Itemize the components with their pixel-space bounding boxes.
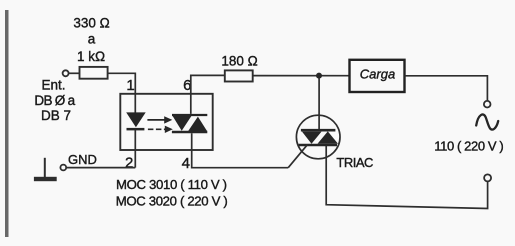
svg-text:TRIAC: TRIAC: [336, 155, 373, 170]
arrow (light coupling, lower): [148, 128, 165, 130]
resistor R2 180R body: [225, 70, 253, 81]
label: Ent. DB0 a DB7: [34, 77, 75, 123]
TRIAC top bar MT2: [301, 129, 336, 132]
svg-text:330 Ω: 330 Ω: [73, 16, 109, 31]
svg-text:MOC 3020 ( 220 V ): MOC 3020 ( 220 V ): [116, 193, 228, 208]
svg-text:Ent.: Ent.: [42, 77, 66, 92]
TRIAC bottom bar MT1: [299, 144, 337, 147]
TRIAC left triangle: [302, 132, 322, 144]
wire: AC bottom terminal down and left to TRIAC MT1: [326, 146, 487, 209]
wire: input terminal to R1: [69, 72, 79, 74]
svg-text:2: 2: [125, 154, 133, 171]
terminal: input circle Ent.: [63, 70, 69, 76]
LED D1 inside optocoupler: [126, 112, 146, 127]
load box Carga: [350, 60, 405, 92]
resistor R1 330R-1k body: [80, 67, 108, 79]
optotriac inside U1: top bar: [172, 114, 207, 116]
terminal: AC bottom circle: [484, 174, 491, 181]
svg-text:Carga: Carga: [360, 66, 395, 81]
wire: Carga right to AC top terminal: [405, 76, 488, 101]
svg-text:4: 4: [182, 155, 190, 172]
wire: LED cathode down to pin 2 and GND rail: [134, 130, 136, 168]
ground symbol: [44, 158, 46, 177]
svg-text:110 ( 220 V ): 110 ( 220 V ): [434, 139, 503, 154]
TRIAC right triangle: [318, 131, 339, 143]
arrow (light coupling, upper): [147, 119, 164, 121]
svg-text:180 Ω: 180 Ω: [221, 54, 257, 69]
label: 330 ohm a 1 kohm: [73, 16, 109, 65]
wire: R1 to pin 1 of U1: [108, 73, 136, 112]
wire: junction down to TRIAC MT2: [318, 78, 320, 129]
svg-text:DB 7: DB 7: [41, 108, 71, 123]
wire: R2 to Carga with junction: [253, 75, 350, 77]
optocoupler U1 MOC30xx box: [120, 94, 212, 150]
TRIAC Q1 circle: [296, 115, 340, 159]
optotriac inside U1: bottom bar: [172, 131, 207, 134]
svg-text:GND: GND: [68, 152, 97, 167]
svg-text:a: a: [88, 31, 96, 46]
svg-text:MOC 3010 ( 110 V ): MOC 3010 ( 110 V ): [116, 177, 227, 192]
terminal: AC top circle: [484, 101, 491, 108]
wire: GND rail to pin 2: [66, 167, 135, 169]
wire: pin 6 up to top rail: [191, 75, 225, 114]
wire: gate diagonal: [288, 145, 307, 168]
svg-text:1 kΩ: 1 kΩ: [77, 49, 105, 64]
svg-text:DB Ø a: DB Ø a: [34, 93, 75, 108]
optotriac left triangle: [173, 116, 192, 131]
junction node dot: [316, 73, 322, 79]
svg-text:1: 1: [126, 77, 134, 94]
optotriac right triangle: [188, 117, 207, 131]
wire: pin 4 down then right to gate: [192, 133, 289, 168]
terminal: GND circle: [60, 165, 66, 171]
AC source sine symbol: [476, 114, 498, 129]
